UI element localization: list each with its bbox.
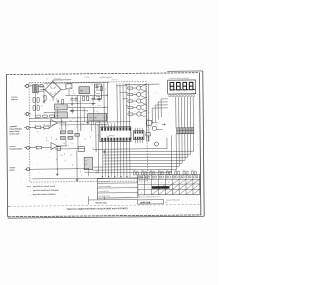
svg-text:R9: R9 [79,101,81,103]
svg-text:LM 4511: LM 4511 [108,135,114,137]
svg-text:R14: R14 [61,120,64,122]
svg-text:NOTE: NOTE [27,186,31,188]
svg-text:CR1-CR4: CR1-CR4 [54,78,60,80]
svg-text:Q1: Q1 [59,128,61,130]
svg-text:R11: R11 [45,112,48,114]
svg-text:C2: C2 [91,84,93,86]
svg-text:INPUT: INPUT [10,170,15,172]
svg-text:C9: C9 [52,112,54,114]
svg-text:R28: R28 [60,155,63,157]
svg-text:R31: R31 [70,155,73,157]
svg-text:2000-028: 2000-028 [140,201,151,204]
svg-text:INPUT FROM: INPUT FROM [9,131,20,133]
svg-text:3: 3 [155,182,156,184]
svg-text:Q: Q [134,85,135,87]
svg-text:T1: T1 [46,78,48,80]
svg-text:C14: C14 [71,143,74,145]
svg-text:R2: R2 [69,87,71,89]
svg-text:4: 4 [161,182,162,184]
svg-text:Q: Q [134,104,135,106]
svg-text:REG 7805: REG 7805 [89,117,97,119]
svg-text:R1: R1 [46,84,48,86]
svg-text:R4: R4 [73,93,75,95]
svg-text:5: 5 [168,182,169,184]
svg-text:1: 1 [141,182,142,184]
svg-text:595 201 2162: 595 201 2162 [96,202,107,204]
svg-text:C7: C7 [69,105,71,107]
svg-text:CURRENT: CURRENT [9,126,17,128]
svg-text:U3: U3 [85,160,87,162]
svg-text:C12: C12 [43,124,46,126]
svg-text:R26: R26 [97,125,100,127]
svg-text:4 1/2 DIGIT BD: 4 1/2 DIGIT BD [99,191,110,193]
svg-text:R18: R18 [53,124,56,126]
svg-text:R21: R21 [63,143,66,145]
svg-text:50/60 Hz: 50/60 Hz [11,99,18,101]
svg-text:2: 2 [148,182,149,184]
svg-text:LM 5.0 SH: LM 5.0 SH [111,79,117,81]
svg-text:C5: C5 [94,92,96,94]
svg-text:SH 1: SH 1 [165,202,168,204]
svg-text:U1: U1 [74,128,76,130]
svg-text:→: → [29,194,31,196]
svg-text:Q: Q [134,111,135,113]
svg-text:R16: R16 [70,120,73,122]
svg-text:VOLT/O: VOLT/O [10,146,17,148]
svg-text:R24: R24 [46,140,49,142]
svg-text:CR5: CR5 [98,105,101,107]
svg-text:UNLESS SPECIFIED: UNLESS SPECIFIED [166,199,180,201]
svg-text:Figure 8-2. Digital Panel Met: Figure 8-2. Digital Panel Meter Circuit … [67,207,128,211]
svg-text:SHUNT: SHUNT [10,167,16,169]
svg-text:C10: C10 [56,107,59,109]
svg-text:→: → [29,190,31,192]
svg-text:C15: C15 [97,135,100,137]
svg-text:DENOTES CIRCUIT COMMON: DENOTES CIRCUIT COMMON [33,194,56,196]
svg-text:Q: Q [134,98,135,100]
svg-text:Q: Q [134,91,135,93]
svg-text:VR1: VR1 [80,90,83,92]
